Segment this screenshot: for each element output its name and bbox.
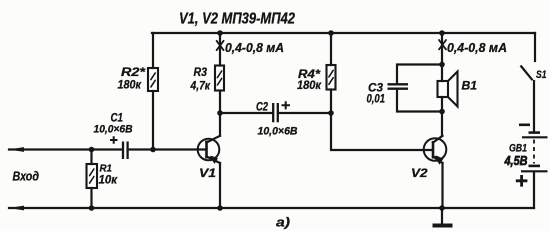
wire R3 to V1 collector bbox=[219, 91, 221, 136]
node top rail / speaker branch junction bbox=[439, 30, 445, 36]
label а) bbox=[276, 215, 290, 230]
node speaker/C3 bottom junction bbox=[439, 109, 445, 115]
svg-text:0,4-0,8 мА: 0,4-0,8 мА bbox=[225, 40, 284, 55]
wire top supply rail bbox=[152, 32, 535, 34]
title label V1, V2 МП39-МП42 bbox=[179, 11, 295, 28]
node C2 / R4 branch junction bbox=[328, 110, 334, 116]
label 0,4-0,8 мА (left) bbox=[225, 40, 284, 55]
label V2 bbox=[411, 166, 428, 180]
transistor V2 bbox=[424, 136, 447, 165]
label 10,0x6В of C2 bbox=[258, 126, 298, 138]
wire R1 bottom lead bbox=[90, 188, 92, 208]
node C2 tap on V1 collector branch bbox=[217, 110, 223, 116]
label 4,5В bbox=[504, 154, 528, 168]
node V2 emitter / bottom rail / ground bbox=[439, 205, 445, 211]
svg-text:V1, V2 МП39-МП42: V1, V2 МП39-МП42 bbox=[179, 11, 295, 28]
resistor R3 bbox=[215, 66, 224, 91]
label - polarity of battery bbox=[519, 124, 530, 127]
wire C2 left lead bbox=[220, 112, 273, 114]
label 4,7к bbox=[190, 79, 211, 93]
label R3 bbox=[194, 65, 208, 79]
wire C1 to V1 base bbox=[129, 148, 206, 150]
arrow input line left bbox=[9, 147, 25, 152]
label C2 bbox=[256, 100, 268, 114]
capacitor C2 bbox=[273, 103, 278, 122]
wire V1 emitter to bottom rail bbox=[219, 163, 221, 208]
wire input line left segment bbox=[9, 148, 122, 150]
wire V2 emitter to bottom rail bbox=[441, 163, 443, 208]
wire bottom rail bbox=[9, 207, 534, 209]
node top rail / R3 junction bbox=[217, 30, 223, 36]
transistor V1 bbox=[198, 136, 220, 164]
wire R2 to input line bbox=[152, 91, 154, 150]
label + polarity of C1 bbox=[110, 136, 118, 143]
wire switch to battery bbox=[533, 81, 535, 131]
node R1 bottom / bottom rail bbox=[89, 205, 95, 211]
current mark x at R3 branch bbox=[217, 41, 224, 50]
wire R2 branch (top rail to R2) bbox=[152, 33, 154, 68]
svg-text:а): а) bbox=[276, 215, 290, 230]
svg-text:Вход: Вход bbox=[13, 169, 40, 184]
wire C3 top link bbox=[397, 65, 442, 85]
label + polarity of C2 bbox=[282, 101, 291, 109]
wire top rail to speaker node bbox=[441, 33, 443, 65]
switch S1 bbox=[521, 66, 533, 81]
svg-text:0,4-0,8 мА: 0,4-0,8 мА bbox=[447, 40, 507, 55]
label C3 bbox=[368, 81, 383, 95]
svg-text:S1: S1 bbox=[536, 69, 547, 81]
node V1 emitter / bottom rail bbox=[217, 205, 223, 211]
wire junction to V2 base bbox=[331, 113, 432, 150]
wire R4 to junction bbox=[330, 90, 332, 114]
svg-text:C2: C2 bbox=[256, 100, 268, 114]
svg-text:GB1: GB1 bbox=[509, 143, 527, 155]
label R4* bbox=[298, 67, 321, 81]
svg-text:4,7к: 4,7к bbox=[190, 79, 211, 93]
label Вход bbox=[13, 169, 40, 184]
label GB1 bbox=[509, 143, 527, 155]
speaker B1 bbox=[438, 72, 458, 107]
wire C2 right lead bbox=[279, 112, 332, 114]
label B1 bbox=[462, 79, 478, 93]
wire speaker top lead bbox=[441, 65, 443, 82]
wire speaker bottom lead bbox=[441, 97, 443, 112]
label 180к of R4 bbox=[297, 78, 322, 92]
arrow bottom rail left bbox=[9, 206, 25, 211]
current mark x at speaker branch bbox=[439, 40, 446, 49]
svg-text:10к: 10к bbox=[99, 173, 118, 187]
wire R1 top lead bbox=[90, 150, 92, 165]
svg-text:R3: R3 bbox=[194, 65, 208, 79]
svg-text:180к: 180к bbox=[297, 78, 322, 92]
svg-text:B1: B1 bbox=[462, 79, 478, 93]
wire speaker node to V2 collector bbox=[441, 112, 443, 136]
battery GB1 bbox=[521, 133, 548, 172]
label + polarity of battery bbox=[516, 175, 528, 187]
resistor R2 bbox=[148, 68, 158, 91]
label R2* bbox=[121, 65, 147, 79]
label 0,4-0,8 мА (right) bbox=[447, 40, 507, 55]
wire C3 bottom link bbox=[397, 89, 442, 112]
svg-text:10,0×6В: 10,0×6В bbox=[258, 126, 298, 138]
label 180к bbox=[118, 78, 142, 92]
label C1 bbox=[111, 111, 124, 125]
ground symbol bbox=[433, 208, 453, 226]
label 0,01 bbox=[367, 92, 386, 106]
node top rail / R4 junction bbox=[328, 30, 334, 36]
svg-text:V1: V1 bbox=[199, 166, 216, 180]
label S1 bbox=[536, 69, 547, 81]
node R1 top / input line bbox=[89, 147, 95, 153]
capacitor C1 bbox=[123, 142, 128, 160]
wire battery to bottom rail bbox=[533, 172, 535, 208]
label R1 bbox=[100, 163, 113, 175]
capacitor C3 bbox=[388, 84, 409, 88]
wire top rail to switch bbox=[534, 33, 536, 61]
label 10к bbox=[99, 173, 118, 187]
svg-text:10,0×6В: 10,0×6В bbox=[94, 124, 133, 136]
svg-text:C1: C1 bbox=[111, 111, 124, 125]
resistor R1 bbox=[87, 164, 98, 188]
svg-text:180к: 180к bbox=[118, 78, 142, 92]
svg-text:4,5В: 4,5В bbox=[504, 154, 528, 168]
wire R3 branch (top rail to R3) bbox=[219, 33, 221, 66]
resistor R4 bbox=[327, 65, 336, 90]
node R2/input line junction bbox=[150, 147, 156, 153]
label V1 bbox=[199, 166, 216, 180]
node speaker/C3 top junction bbox=[439, 62, 445, 68]
wire R4 branch (top rail to R4) bbox=[330, 33, 332, 65]
svg-text:0,01: 0,01 bbox=[367, 92, 386, 106]
label 10,0x6В of C1 bbox=[94, 124, 133, 136]
svg-text:V2: V2 bbox=[411, 166, 428, 180]
